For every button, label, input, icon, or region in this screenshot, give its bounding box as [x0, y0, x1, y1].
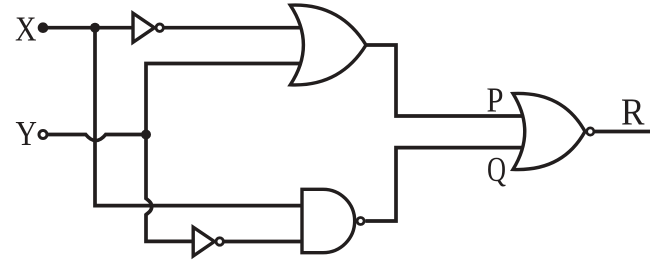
- wire: OR gate output down to P input of final gate: [366, 45, 535, 116]
- NOT gate U1 (top inverter) triangle: [133, 13, 154, 42]
- NAND gate G2 body: [302, 189, 355, 252]
- wire: branch from X junction down and right to NAND top input: [95, 28, 306, 206]
- wire: inverter U1 output to OR gate top input: [164, 26, 310, 30]
- svg-text:X: X: [15, 10, 37, 49]
- terminal X (filled dot): [38, 22, 49, 33]
- wire: NAND output up to Q input of final gate: [365, 148, 535, 221]
- wire: Y branch up to OR gate bottom input: [146, 64, 310, 135]
- terminal Y (open circle): [39, 131, 47, 139]
- svg-text:Y: Y: [16, 114, 38, 153]
- wire: Y branch down with hop over horizontal wire, to inverter U2 input: [146, 135, 193, 242]
- bubble of U1: [156, 24, 163, 31]
- OR gate G1: [290, 5, 366, 85]
- bubble of G2: [357, 218, 364, 225]
- wire: inverter U2 output to NAND bottom input: [224, 240, 306, 244]
- wire: X input line: [43, 26, 133, 30]
- svg-text:Q: Q: [487, 150, 506, 189]
- NOR gate G3 (output gate): [513, 93, 585, 169]
- svg-text:P: P: [487, 81, 504, 120]
- svg-text:R: R: [621, 92, 645, 134]
- junction dot on Y wire: [141, 130, 151, 140]
- bubble of U2: [216, 238, 223, 245]
- wire: output R line: [595, 130, 650, 134]
- junction dot on X wire: [90, 23, 100, 33]
- bubble of G3: [587, 128, 594, 135]
- NOT gate U2 (bottom inverter) triangle: [193, 227, 214, 256]
- wire: Y input line with hop over vertical X branch: [48, 135, 146, 141]
